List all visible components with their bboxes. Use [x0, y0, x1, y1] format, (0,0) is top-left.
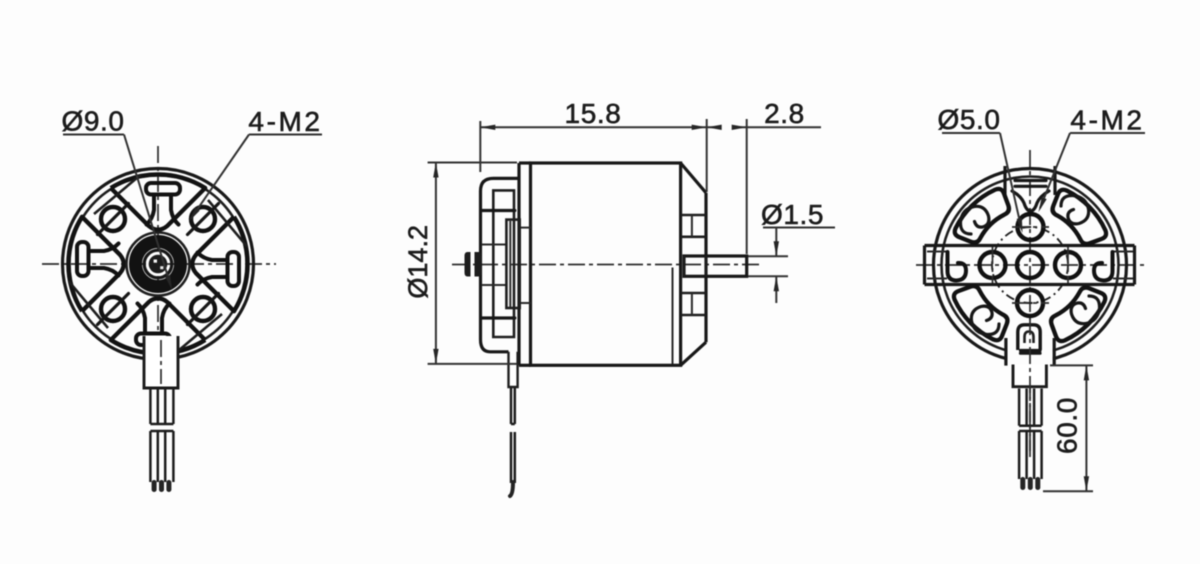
side rear chamfer bottom: [681, 342, 706, 365]
front rim chord bottom-right: [175, 314, 222, 353]
dimension 60.0 extension lines: [1050, 364, 1093, 366]
side wire upper: [511, 388, 515, 424]
side wire tip: [510, 482, 513, 496]
rear winding top-right: [1053, 190, 1107, 244]
front wire bundle upper: [150, 389, 173, 424]
side front flange outline: [481, 178, 520, 351]
front view vertical centerline: [157, 146, 159, 252]
rear bottom slot field: [1007, 336, 1053, 365]
dimension 1.5 extension lines: [748, 255, 788, 257]
front bell top cutout: [111, 174, 205, 229]
rear winding top-left hook: [960, 206, 988, 234]
front bell left cutout: [68, 217, 123, 311]
side shaft: [684, 256, 747, 276]
front view inner circle: [70, 176, 247, 353]
front rim chord top-left: [94, 175, 141, 214]
front bell left cutout web: [77, 242, 119, 276]
front shaft end: [149, 255, 168, 274]
leader for diameter 9.0: [124, 135, 171, 286]
front rim chord top-right: [208, 200, 247, 247]
front bell bottom cutout web: [136, 304, 170, 346]
side wire lower: [511, 432, 515, 483]
rear wire sleeve: [1013, 365, 1046, 387]
side flange boss: [493, 190, 514, 337]
side disc-body ticks: [519, 227, 531, 229]
svg-text:60.0: 60.0: [1052, 397, 1083, 454]
rear band left hook: [948, 252, 967, 281]
rear tapped hole right: [1055, 252, 1081, 278]
rear wire bundle lower: [1019, 431, 1042, 479]
front bell top cutout web: [146, 183, 180, 225]
svg-text:15.8: 15.8: [565, 98, 622, 129]
dimension 15.8 line: [480, 126, 721, 128]
side bearing: [506, 220, 519, 308]
svg-text:4-M2: 4-M2: [1070, 105, 1144, 136]
rear winding bottom-right hook: [1071, 296, 1099, 324]
side rear face: [704, 193, 707, 342]
leader for 4-M2 front: [191, 135, 249, 219]
rear bottom slot: [1004, 338, 1007, 366]
leader for 4-M2 rear: [1040, 133, 1070, 208]
side body outline: [531, 163, 681, 365]
rear view horizontal centerline: [916, 264, 1144, 266]
rear winding top-right hook: [1061, 195, 1089, 223]
svg-text:2.8: 2.8: [764, 98, 805, 129]
rear top tongue: [1012, 191, 1049, 211]
dimension 2.8 extension line: [746, 119, 748, 254]
front view horizontal centerline: [42, 263, 276, 265]
front hub thick ring: [136, 242, 181, 287]
side wire sleeve: [509, 352, 518, 387]
rear hole crossticks: [1012, 226, 1049, 228]
front rim chord bottom-left: [69, 281, 108, 328]
front wire tips: [152, 480, 172, 492]
front hub outer ring: [127, 233, 190, 296]
leader for diameter 5.0: [1000, 133, 1021, 229]
front bell right cutout: [192, 217, 247, 311]
front view outer circle: [63, 169, 254, 360]
rear right tab cap: [1133, 246, 1136, 285]
front mounting hole top-right: [191, 207, 215, 231]
rear band inner lines: [927, 251, 947, 253]
rear winding bottom-left: [954, 286, 1008, 340]
svg-text:Ø14.2: Ø14.2: [403, 225, 433, 299]
dimension 15.8 extension lines: [479, 121, 481, 172]
rear winding bottom-right: [1051, 288, 1105, 342]
rear view outer circle: [934, 169, 1127, 362]
rear center hole: [1017, 252, 1043, 278]
side front disc: [517, 163, 520, 365]
rear bolt circle: [992, 227, 1068, 303]
side shaft stub: [465, 252, 471, 277]
rear view inner circle: [942, 177, 1119, 354]
rear vertical centerline overlay: [1029, 318, 1031, 455]
side rear slots: [681, 214, 706, 217]
side view centerline: [452, 264, 762, 266]
front bell right cutout web: [198, 252, 240, 286]
front sleeve centerline: [160, 340, 162, 384]
dimension 14.2 extension lines: [428, 162, 517, 164]
front mounting hole top-left: [101, 207, 125, 231]
svg-text:Ø5.0: Ø5.0: [937, 104, 1000, 135]
dimension 1.5 leader: [763, 227, 835, 229]
front wire bundle lower: [150, 431, 173, 482]
dimension 2.8 line: [733, 126, 821, 128]
dimension 14.2 line: [435, 163, 437, 364]
rear wire bundle upper: [1019, 389, 1042, 426]
rear tapped hole bottom: [1017, 290, 1043, 316]
rear left tab: [925, 244, 1135, 247]
rear wire tips: [1020, 477, 1040, 490]
side body inner wall: [672, 268, 674, 365]
svg-text:Ø1.5: Ø1.5: [761, 199, 824, 230]
rear top slot: [1003, 166, 1006, 195]
rear winding bottom-left hook: [971, 306, 999, 334]
svg-text:Ø9.0: Ø9.0: [61, 106, 124, 137]
front mounting hole bottom-left: [101, 297, 125, 321]
front wire sleeve: [144, 336, 178, 388]
rear bottom tongue: [1018, 325, 1040, 350]
rear view vertical centerline: [1029, 150, 1031, 460]
side rear chamfer top: [681, 163, 706, 193]
rear winding top-left: [955, 189, 1009, 243]
dimension 60.0 line: [1085, 365, 1087, 491]
front hub bearing ring: [144, 250, 172, 278]
rear tapped hole left: [980, 252, 1006, 278]
svg-text:4-M2: 4-M2: [248, 106, 322, 137]
front mounting hole bottom-right: [191, 297, 215, 321]
front bell bottom cutout: [111, 298, 205, 353]
rear band right hook: [1094, 252, 1113, 281]
rear tapped hole top: [1018, 214, 1044, 240]
